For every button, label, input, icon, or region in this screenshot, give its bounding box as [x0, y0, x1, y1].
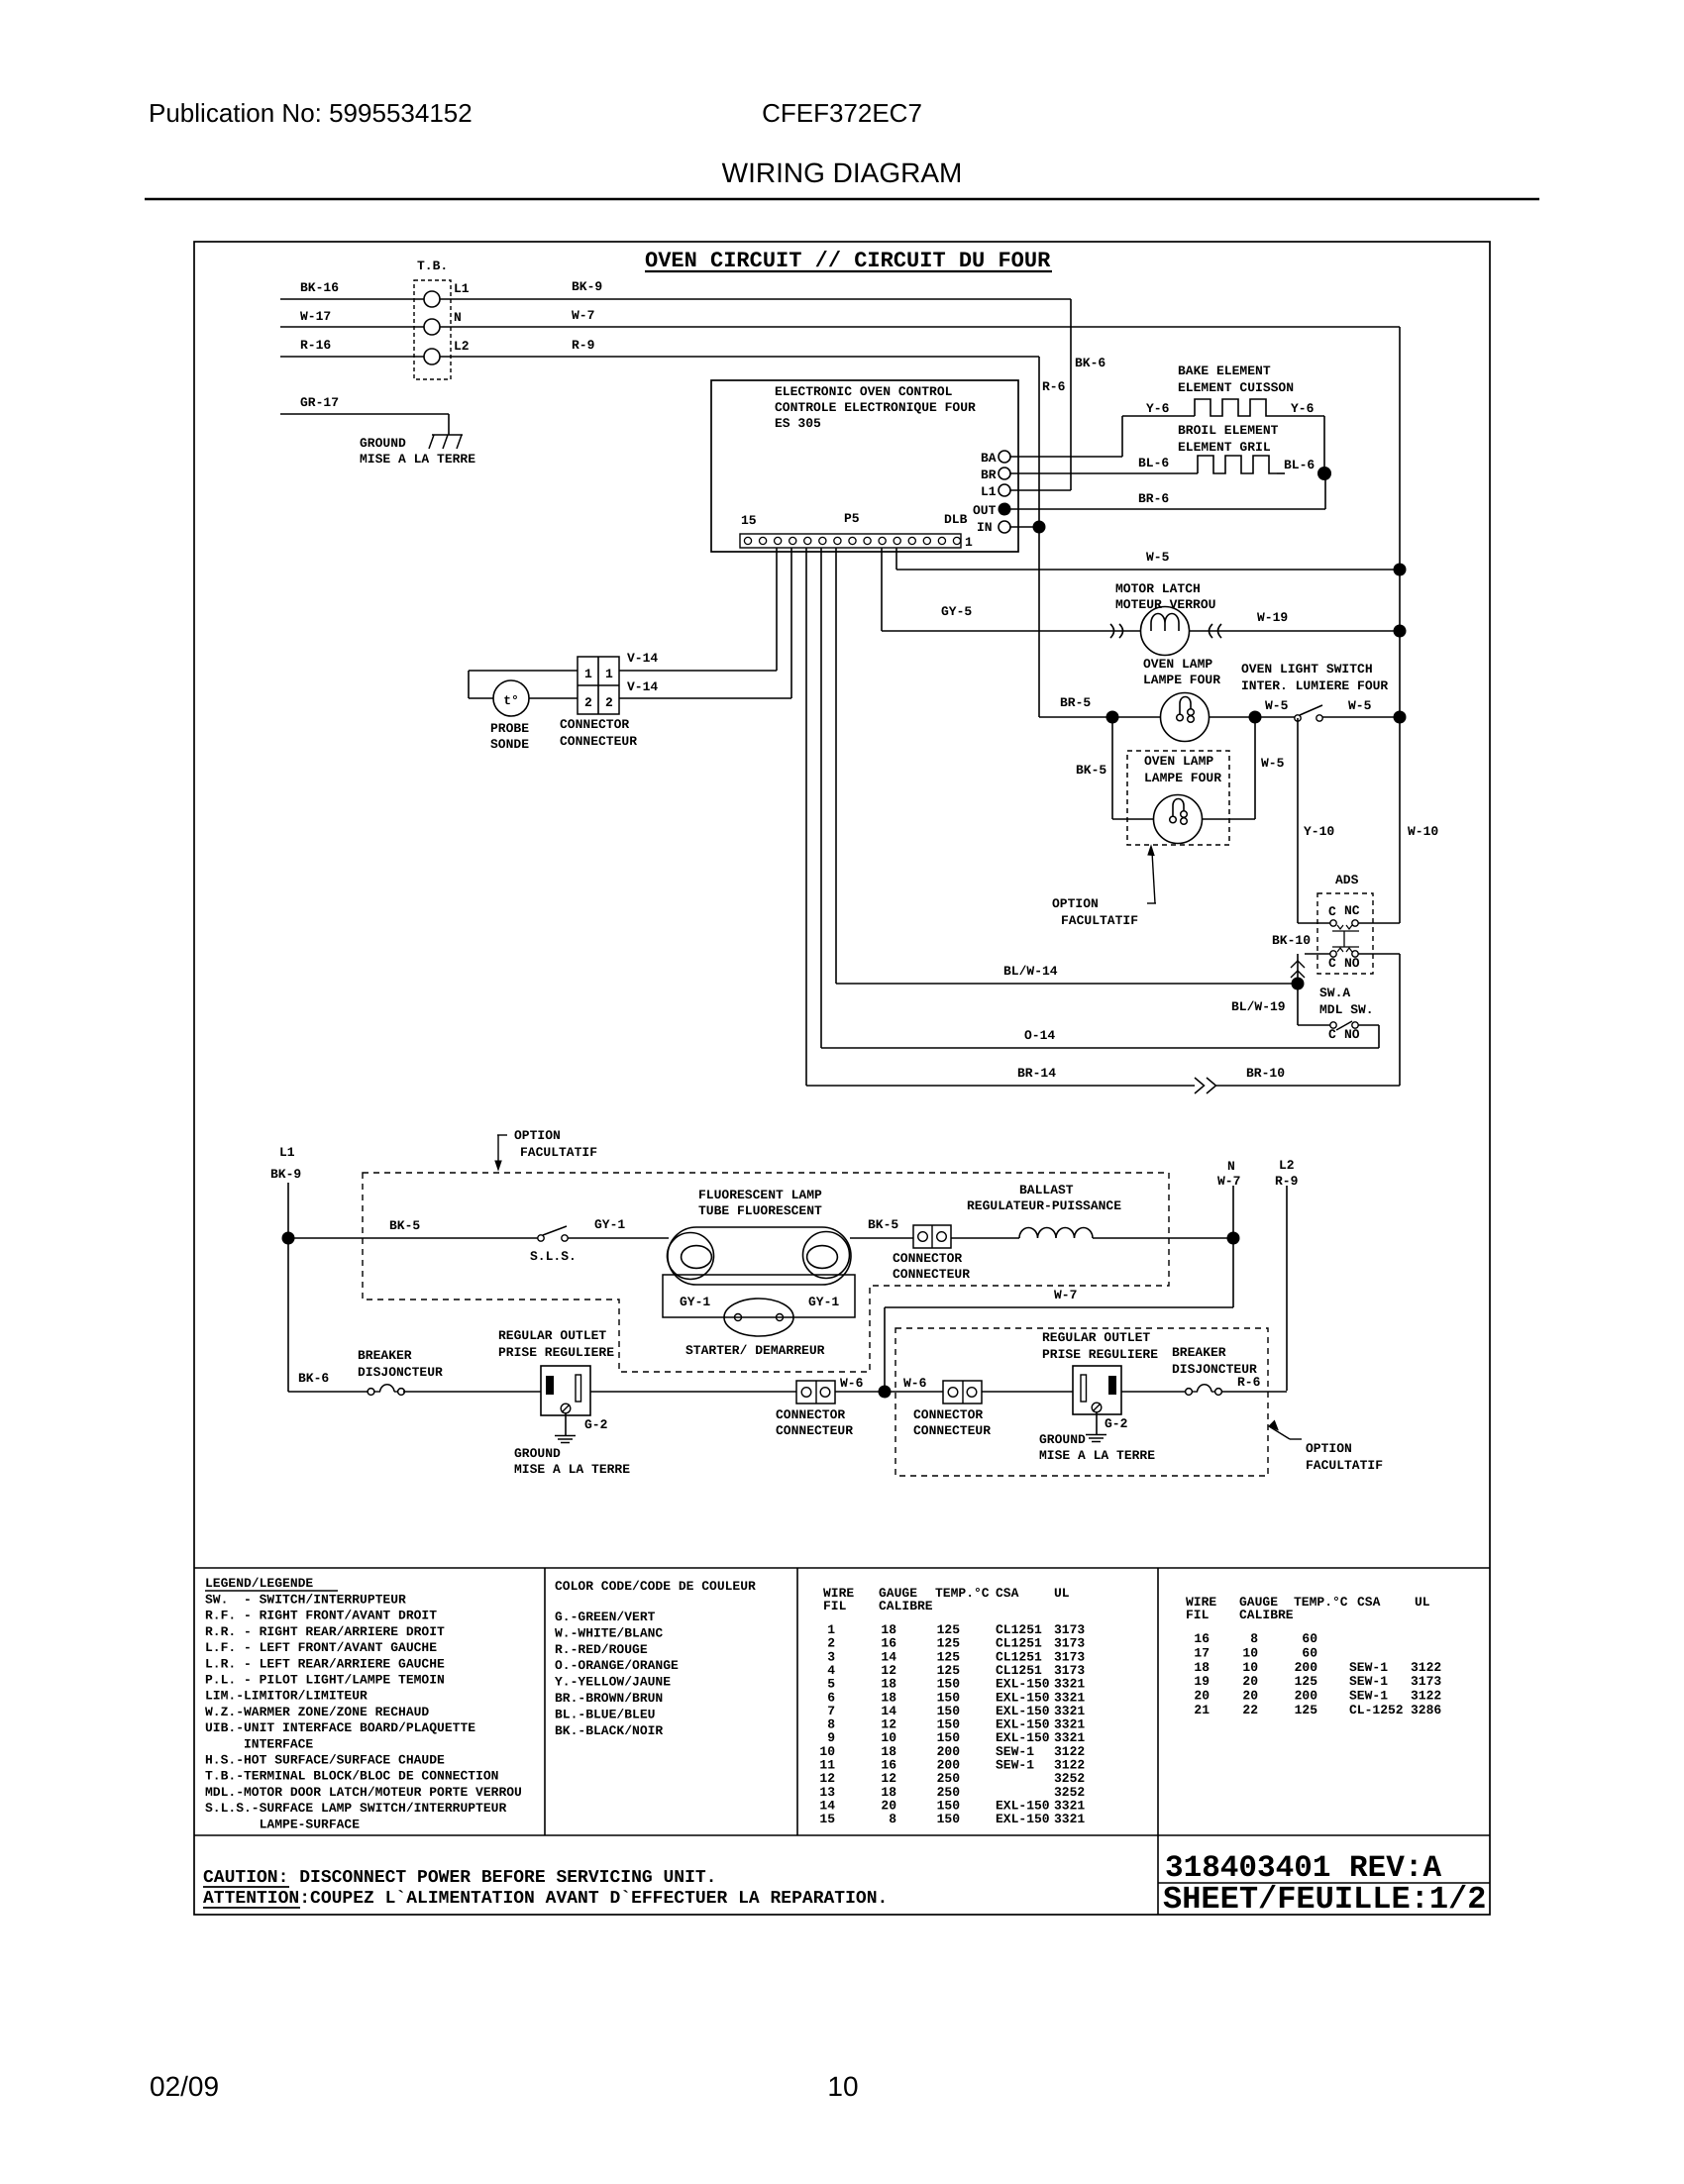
svg-text:BK-5: BK-5: [389, 1218, 420, 1233]
svg-text:BR-14: BR-14: [1017, 1066, 1056, 1081]
svg-text:MOTEUR VERROU: MOTEUR VERROU: [1115, 597, 1215, 612]
svg-text:W-7: W-7: [1217, 1174, 1240, 1189]
svg-text:INTER. LUMIERE FOUR: INTER. LUMIERE FOUR: [1241, 678, 1388, 693]
svg-text:3173: 3173: [1411, 1674, 1441, 1689]
svg-text:WIRING DIAGRAM: WIRING DIAGRAM: [722, 157, 963, 188]
svg-text:02/09: 02/09: [150, 2071, 219, 2102]
svg-text:20: 20: [1242, 1689, 1258, 1704]
svg-text:CONNECTOR: CONNECTOR: [776, 1407, 845, 1422]
svg-text:L.R. - LEFT REAR/ARRIERE GAUCH: L.R. - LEFT REAR/ARRIERE GAUCHE: [205, 1656, 445, 1671]
svg-text:IN: IN: [977, 520, 993, 535]
svg-text:10: 10: [1242, 1660, 1258, 1675]
svg-text:P5: P5: [844, 511, 860, 526]
svg-text:BL-6: BL-6: [1138, 456, 1169, 470]
svg-text:MISE A LA TERRE: MISE A LA TERRE: [360, 452, 475, 467]
svg-text:SW. - SWITCH/INTERRUPTEUR: SW. - SWITCH/INTERRUPTEUR: [205, 1593, 406, 1608]
svg-text:REGULAR OUTLET: REGULAR OUTLET: [1042, 1330, 1150, 1345]
svg-text:R-6: R-6: [1237, 1375, 1261, 1390]
svg-text:OVEN CIRCUIT // CIRCUIT DU FOU: OVEN CIRCUIT // CIRCUIT DU FOUR: [645, 249, 1051, 273]
svg-text:R-6: R-6: [1042, 379, 1066, 394]
svg-text:Y-6: Y-6: [1146, 401, 1170, 416]
svg-text:20: 20: [1194, 1689, 1210, 1704]
svg-text:W-5: W-5: [1261, 756, 1285, 771]
svg-text:CONNECTEUR: CONNECTEUR: [893, 1267, 970, 1282]
svg-text:BK-16: BK-16: [300, 280, 339, 295]
svg-text:BAKE ELEMENT: BAKE ELEMENT: [1178, 364, 1271, 378]
svg-text:SW.A: SW.A: [1319, 986, 1350, 1000]
svg-text:T.B.: T.B.: [417, 259, 448, 273]
svg-text:BK-6: BK-6: [1075, 356, 1105, 370]
svg-text:SEW-1: SEW-1: [1349, 1689, 1388, 1704]
svg-text:CONNECTOR: CONNECTOR: [913, 1407, 983, 1422]
svg-text:2: 2: [605, 695, 613, 710]
svg-text:UIB.-UNIT INTERFACE BOARD/PLAQ: UIB.-UNIT INTERFACE BOARD/PLAQUETTE: [205, 1720, 475, 1735]
svg-text:SEW-1: SEW-1: [1349, 1674, 1388, 1689]
svg-text:10: 10: [1242, 1645, 1258, 1660]
svg-text:W-7: W-7: [1054, 1288, 1077, 1302]
svg-text:SHEET/FEUILLE:1/2: SHEET/FEUILLE:1/2: [1163, 1881, 1486, 1918]
svg-text:ELECTRONIC OVEN CONTROL: ELECTRONIC OVEN CONTROL: [775, 384, 953, 399]
svg-text:W-5: W-5: [1348, 698, 1372, 713]
svg-text:CFEF372EC7: CFEF372EC7: [762, 98, 922, 128]
svg-text:LIM.-LIMITOR/LIMITEUR: LIM.-LIMITOR/LIMITEUR: [205, 1689, 368, 1704]
svg-text:FLUORESCENT LAMP: FLUORESCENT LAMP: [698, 1188, 822, 1202]
svg-text:BK-5: BK-5: [868, 1217, 898, 1232]
svg-text:BR-5: BR-5: [1060, 695, 1091, 710]
svg-text:G-2: G-2: [1105, 1416, 1128, 1431]
svg-text:R.R. - RIGHT REAR/ARRIERE DROI: R.R. - RIGHT REAR/ARRIERE DROIT: [205, 1624, 445, 1639]
svg-text:FIL: FIL: [823, 1599, 847, 1613]
svg-text:CONNECTOR: CONNECTOR: [893, 1251, 962, 1266]
svg-text:N: N: [454, 310, 462, 325]
svg-text:t°: t°: [503, 693, 519, 708]
svg-text:21: 21: [1194, 1703, 1210, 1717]
svg-text:EXL-150: EXL-150: [996, 1812, 1050, 1826]
svg-text:R-9: R-9: [572, 338, 595, 353]
svg-text:PROBE: PROBE: [490, 721, 529, 736]
svg-text:GROUND: GROUND: [1039, 1432, 1086, 1447]
svg-text:15: 15: [741, 513, 757, 528]
svg-text:BR.-BROWN/BRUN: BR.-BROWN/BRUN: [555, 1691, 663, 1706]
svg-text:CSA: CSA: [1357, 1595, 1381, 1610]
svg-text:INTERFACE: INTERFACE: [205, 1736, 313, 1751]
svg-text:GY-5: GY-5: [941, 604, 972, 619]
svg-text:Y-10: Y-10: [1304, 824, 1334, 839]
svg-text:LAMPE-SURFACE: LAMPE-SURFACE: [205, 1817, 360, 1831]
svg-text:GROUND: GROUND: [514, 1446, 561, 1461]
svg-text:3122: 3122: [1411, 1689, 1441, 1704]
svg-text:MISE A LA TERRE: MISE A LA TERRE: [514, 1462, 630, 1477]
svg-text:W-7: W-7: [572, 308, 594, 323]
svg-text:CONNECTEUR: CONNECTEUR: [560, 734, 637, 749]
svg-text:T.B.-TERMINAL BLOCK/BLOC DE CO: T.B.-TERMINAL BLOCK/BLOC DE CONNECTION: [205, 1769, 498, 1784]
svg-text:W-6: W-6: [840, 1376, 864, 1391]
svg-text:H.S.-HOT SURFACE/SURFACE CHAUD: H.S.-HOT SURFACE/SURFACE CHAUDE: [205, 1753, 445, 1768]
svg-text:N: N: [1227, 1159, 1235, 1174]
svg-text:GR-17: GR-17: [300, 395, 339, 410]
svg-text:MOTOR LATCH: MOTOR LATCH: [1115, 581, 1201, 596]
svg-text:125: 125: [1295, 1703, 1318, 1717]
svg-text:L.F. - LEFT FRONT/AVANT GAUCHE: L.F. - LEFT FRONT/AVANT GAUCHE: [205, 1640, 437, 1655]
svg-text:G-2: G-2: [584, 1417, 608, 1432]
svg-text:3122: 3122: [1411, 1660, 1441, 1675]
svg-text:REGULATEUR-PUISSANCE: REGULATEUR-PUISSANCE: [967, 1198, 1121, 1213]
svg-text:G.-GREEN/VERT: G.-GREEN/VERT: [555, 1610, 656, 1624]
svg-text:NC: NC: [1344, 903, 1360, 918]
svg-text:CONTROLE ELECTRONIQUE FOUR: CONTROLE ELECTRONIQUE FOUR: [775, 400, 976, 415]
svg-text:1: 1: [965, 535, 973, 550]
svg-text:60: 60: [1302, 1645, 1317, 1660]
svg-text:BL/W-14: BL/W-14: [1003, 964, 1058, 979]
svg-text:O-14: O-14: [1024, 1028, 1055, 1043]
svg-text:R.-RED/ROUGE: R.-RED/ROUGE: [555, 1642, 648, 1657]
svg-text:BK-6: BK-6: [298, 1371, 329, 1386]
svg-text:BR-10: BR-10: [1246, 1066, 1285, 1081]
svg-text:16: 16: [1194, 1631, 1210, 1646]
svg-text:UL: UL: [1054, 1586, 1070, 1601]
svg-text:W-6: W-6: [903, 1376, 927, 1391]
svg-text:17: 17: [1194, 1645, 1210, 1660]
svg-text:NO: NO: [1344, 1027, 1360, 1042]
svg-text:BL/W-19: BL/W-19: [1231, 999, 1286, 1014]
svg-text:Y-6: Y-6: [1291, 401, 1315, 416]
svg-text:150: 150: [937, 1812, 961, 1826]
svg-text:CONNECTEUR: CONNECTEUR: [776, 1423, 853, 1438]
svg-text:60: 60: [1302, 1631, 1317, 1646]
svg-text:V-14: V-14: [627, 679, 658, 694]
svg-text:S.L.S.: S.L.S.: [530, 1249, 577, 1264]
svg-text:R-16: R-16: [300, 338, 331, 353]
svg-text:GROUND: GROUND: [360, 436, 406, 451]
svg-text:C: C: [1328, 904, 1336, 919]
svg-text:DISJONCTEUR: DISJONCTEUR: [358, 1365, 443, 1380]
svg-text:NO: NO: [1344, 956, 1360, 971]
svg-text:200: 200: [1295, 1660, 1318, 1675]
svg-text:L1: L1: [981, 484, 997, 499]
svg-text:125: 125: [1295, 1674, 1318, 1689]
svg-text:L2: L2: [1279, 1158, 1295, 1173]
svg-text:FACULTATIF: FACULTATIF: [1061, 913, 1138, 928]
svg-text:LAMPE FOUR: LAMPE FOUR: [1144, 771, 1221, 785]
svg-text:W-19: W-19: [1257, 610, 1288, 625]
svg-text:PRISE REGULIERE: PRISE REGULIERE: [1042, 1347, 1158, 1362]
svg-text:CONNECTEUR: CONNECTEUR: [913, 1423, 991, 1438]
svg-text:20: 20: [1242, 1674, 1258, 1689]
svg-text:W-17: W-17: [300, 309, 331, 324]
svg-text:18: 18: [1194, 1660, 1210, 1675]
svg-text:C: C: [1328, 956, 1336, 971]
svg-text:MISE A LA TERRE: MISE A LA TERRE: [1039, 1448, 1155, 1463]
svg-text:W.Z.-WARMER ZONE/ZONE RECHAUD: W.Z.-WARMER ZONE/ZONE RECHAUD: [205, 1705, 429, 1719]
svg-text:COLOR CODE/CODE DE COULEUR: COLOR CODE/CODE DE COULEUR: [555, 1579, 756, 1594]
svg-text:UL: UL: [1415, 1595, 1430, 1610]
svg-text:W.-WHITE/BLANC: W.-WHITE/BLANC: [555, 1625, 663, 1640]
svg-text:BK-9: BK-9: [270, 1167, 301, 1182]
svg-text:SEW-1: SEW-1: [996, 1758, 1034, 1773]
svg-text:MDL.-MOTOR DOOR LATCH/MOTEUR P: MDL.-MOTOR DOOR LATCH/MOTEUR PORTE VERRO…: [205, 1785, 522, 1800]
svg-text:GY-1: GY-1: [594, 1217, 625, 1232]
svg-text:L1: L1: [279, 1145, 295, 1160]
svg-text:BK-5: BK-5: [1076, 763, 1106, 778]
svg-text:CALIBRE: CALIBRE: [879, 1599, 933, 1613]
svg-text:BR-6: BR-6: [1138, 491, 1169, 506]
svg-text:Publication No: 5995534152: Publication No: 5995534152: [149, 98, 473, 128]
svg-text:FIL: FIL: [1186, 1608, 1210, 1622]
svg-text:P.L. - PILOT LIGHT/LAMPE TEMOI: P.L. - PILOT LIGHT/LAMPE TEMOIN: [205, 1673, 445, 1688]
svg-text:S.L.S.-SURFACE LAMP SWITCH/INT: S.L.S.-SURFACE LAMP SWITCH/INTERRUPTEUR: [205, 1801, 506, 1816]
svg-text:22: 22: [1242, 1703, 1258, 1717]
svg-text:SONDE: SONDE: [490, 737, 529, 752]
svg-text:BK-10: BK-10: [1272, 933, 1311, 948]
svg-text:ES 305: ES 305: [775, 416, 821, 431]
svg-text:BA: BA: [981, 451, 997, 466]
svg-text:OVEN LIGHT SWITCH: OVEN LIGHT SWITCH: [1241, 662, 1373, 676]
svg-text:OVEN LAMP: OVEN LAMP: [1143, 657, 1212, 672]
svg-text:OUT: OUT: [973, 503, 997, 518]
svg-text:STARTER/ DEMARREUR: STARTER/ DEMARREUR: [685, 1343, 825, 1358]
svg-text:REGULAR OUTLET: REGULAR OUTLET: [498, 1328, 606, 1343]
svg-text:OVEN LAMP: OVEN LAMP: [1144, 754, 1213, 769]
svg-text:DLB: DLB: [944, 512, 968, 527]
svg-text:V-14: V-14: [627, 651, 658, 666]
svg-text:BL.-BLUE/BLEU: BL.-BLUE/BLEU: [555, 1707, 655, 1721]
svg-text:CALIBRE: CALIBRE: [1239, 1608, 1294, 1622]
svg-text:15: 15: [819, 1812, 835, 1826]
svg-text:TEMP.°C: TEMP.°C: [1294, 1595, 1348, 1610]
svg-text:ELEMENT CUISSON: ELEMENT CUISSON: [1178, 380, 1294, 395]
svg-text:ATTENTION:COUPEZ L`ALIMENTATIO: ATTENTION:COUPEZ L`ALIMENTATION AVANT D`…: [203, 1889, 888, 1909]
svg-text:FACULTATIF: FACULTATIF: [1306, 1458, 1383, 1473]
svg-text:200: 200: [1295, 1689, 1318, 1704]
svg-text:W-10: W-10: [1408, 824, 1438, 839]
svg-text:LEGEND/LEGENDE: LEGEND/LEGENDE: [205, 1576, 313, 1591]
svg-text:1: 1: [605, 667, 613, 681]
svg-text:1: 1: [584, 667, 592, 681]
svg-text:TUBE FLUORESCENT: TUBE FLUORESCENT: [698, 1203, 822, 1218]
svg-text:8: 8: [889, 1812, 896, 1826]
svg-text:10: 10: [827, 2071, 858, 2102]
svg-text:ELEMENT GRIL: ELEMENT GRIL: [1178, 440, 1271, 455]
svg-text:8: 8: [1250, 1631, 1258, 1646]
svg-text:BL-6: BL-6: [1284, 458, 1315, 472]
svg-text:OPTION: OPTION: [1052, 896, 1099, 911]
svg-text:FACULTATIF: FACULTATIF: [520, 1145, 597, 1160]
svg-text:BR: BR: [981, 468, 997, 482]
svg-text:OPTION: OPTION: [1306, 1441, 1352, 1456]
svg-text:CL-1252: CL-1252: [1349, 1703, 1404, 1717]
svg-text:LAMPE FOUR: LAMPE FOUR: [1143, 673, 1220, 687]
svg-text:TEMP.°C: TEMP.°C: [935, 1586, 990, 1601]
svg-text:O.-ORANGE/ORANGE: O.-ORANGE/ORANGE: [555, 1658, 679, 1673]
svg-text:BK-9: BK-9: [572, 279, 602, 294]
svg-text:3321: 3321: [1054, 1812, 1085, 1826]
svg-text:BREAKER: BREAKER: [1172, 1345, 1226, 1360]
svg-text:BK.-BLACK/NOIR: BK.-BLACK/NOIR: [555, 1723, 663, 1738]
svg-text:Y.-YELLOW/JAUNE: Y.-YELLOW/JAUNE: [555, 1675, 671, 1690]
svg-text:19: 19: [1194, 1674, 1210, 1689]
svg-text:BREAKER: BREAKER: [358, 1348, 412, 1363]
svg-text:GY-1: GY-1: [808, 1295, 839, 1309]
svg-text:L1: L1: [454, 281, 470, 296]
svg-text:CAUTION: DISCONNECT POWER BEFO: CAUTION: DISCONNECT POWER BEFORE SERVICI…: [203, 1868, 716, 1888]
svg-text:CONNECTOR: CONNECTOR: [560, 717, 629, 732]
svg-text:GY-1: GY-1: [680, 1295, 710, 1309]
svg-text:W-5: W-5: [1265, 698, 1289, 713]
svg-text:L2: L2: [454, 339, 470, 354]
svg-text:C: C: [1328, 1027, 1336, 1042]
svg-text:BALLAST: BALLAST: [1019, 1183, 1074, 1197]
svg-text:OPTION: OPTION: [514, 1128, 561, 1143]
svg-text:PRISE REGULIERE: PRISE REGULIERE: [498, 1345, 614, 1360]
svg-text:2: 2: [584, 695, 592, 710]
svg-text:W-5: W-5: [1146, 550, 1170, 565]
svg-text:BROIL ELEMENT: BROIL ELEMENT: [1178, 423, 1279, 438]
svg-text:ADS: ADS: [1335, 873, 1359, 887]
svg-text:SEW-1: SEW-1: [1349, 1660, 1388, 1675]
svg-text:3286: 3286: [1411, 1703, 1441, 1717]
svg-text:CSA: CSA: [996, 1586, 1019, 1601]
svg-text:MDL SW.: MDL SW.: [1319, 1002, 1374, 1017]
svg-text:R.F. - RIGHT FRONT/AVANT DROIT: R.F. - RIGHT FRONT/AVANT DROIT: [205, 1609, 437, 1623]
